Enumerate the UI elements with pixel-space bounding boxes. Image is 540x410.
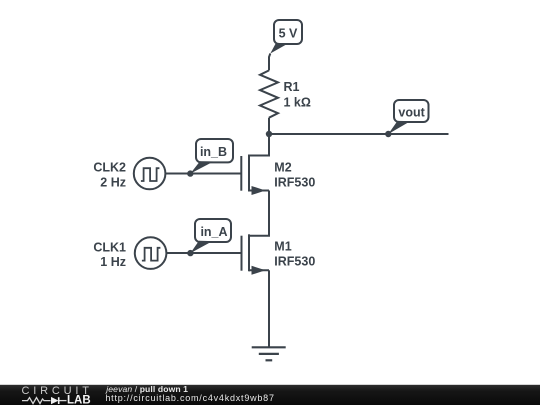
footer credit line [105, 384, 274, 403]
svg-text:IRF530: IRF530 [274, 176, 315, 190]
wire resistor to node [268, 118, 270, 134]
clock source CLK2 [93, 158, 165, 190]
resistor R1 [260, 70, 311, 117]
wire M2 source to M1 drain [249, 191, 269, 236]
wire vout net [269, 133, 449, 135]
svg-text:CLK2: CLK2 [93, 161, 126, 175]
svg-text:vout: vout [398, 105, 425, 119]
svg-text:in_B: in_B [200, 145, 227, 159]
node junction dot [266, 131, 272, 137]
wire M1 source to ground [268, 270, 270, 347]
wire M1 gate [166, 252, 241, 254]
svg-text:1 Hz: 1 Hz [100, 255, 126, 269]
net flag in_A [190, 219, 231, 253]
junction dot in_B [187, 170, 193, 176]
wire M2 gate [165, 173, 241, 175]
svg-text:LAB: LAB [67, 394, 91, 405]
net flag in_B [190, 139, 233, 174]
svg-text:M1: M1 [274, 240, 291, 254]
wire node to M2 drain [249, 134, 269, 156]
net flag vout [388, 100, 428, 134]
vout junction dot [385, 131, 391, 137]
junction dot in_A [187, 250, 193, 256]
svg-text:IRF530: IRF530 [274, 255, 315, 269]
ground [252, 347, 286, 360]
footer bar [0, 385, 540, 405]
transistor M1 IRF530 [242, 234, 316, 274]
svg-text:5 V: 5 V [279, 26, 298, 40]
svg-text:http://circuitlab.com/c4v4kdxt: http://circuitlab.com/c4v4kdxt9wb87 [105, 393, 274, 403]
svg-text:R1: R1 [284, 80, 300, 94]
CircuitLab logo [22, 385, 93, 406]
svg-text:in_A: in_A [200, 225, 227, 239]
transistor M2 IRF530 [241, 155, 315, 196]
svg-text:M2: M2 [274, 161, 291, 175]
svg-text:2 Hz: 2 Hz [100, 175, 126, 189]
wire flag to resistor [269, 54, 270, 71]
clock source CLK1 [93, 237, 166, 269]
svg-text:CLK1: CLK1 [93, 241, 126, 255]
power flag 5 V [270, 20, 302, 54]
svg-text:1 kΩ: 1 kΩ [284, 96, 311, 110]
